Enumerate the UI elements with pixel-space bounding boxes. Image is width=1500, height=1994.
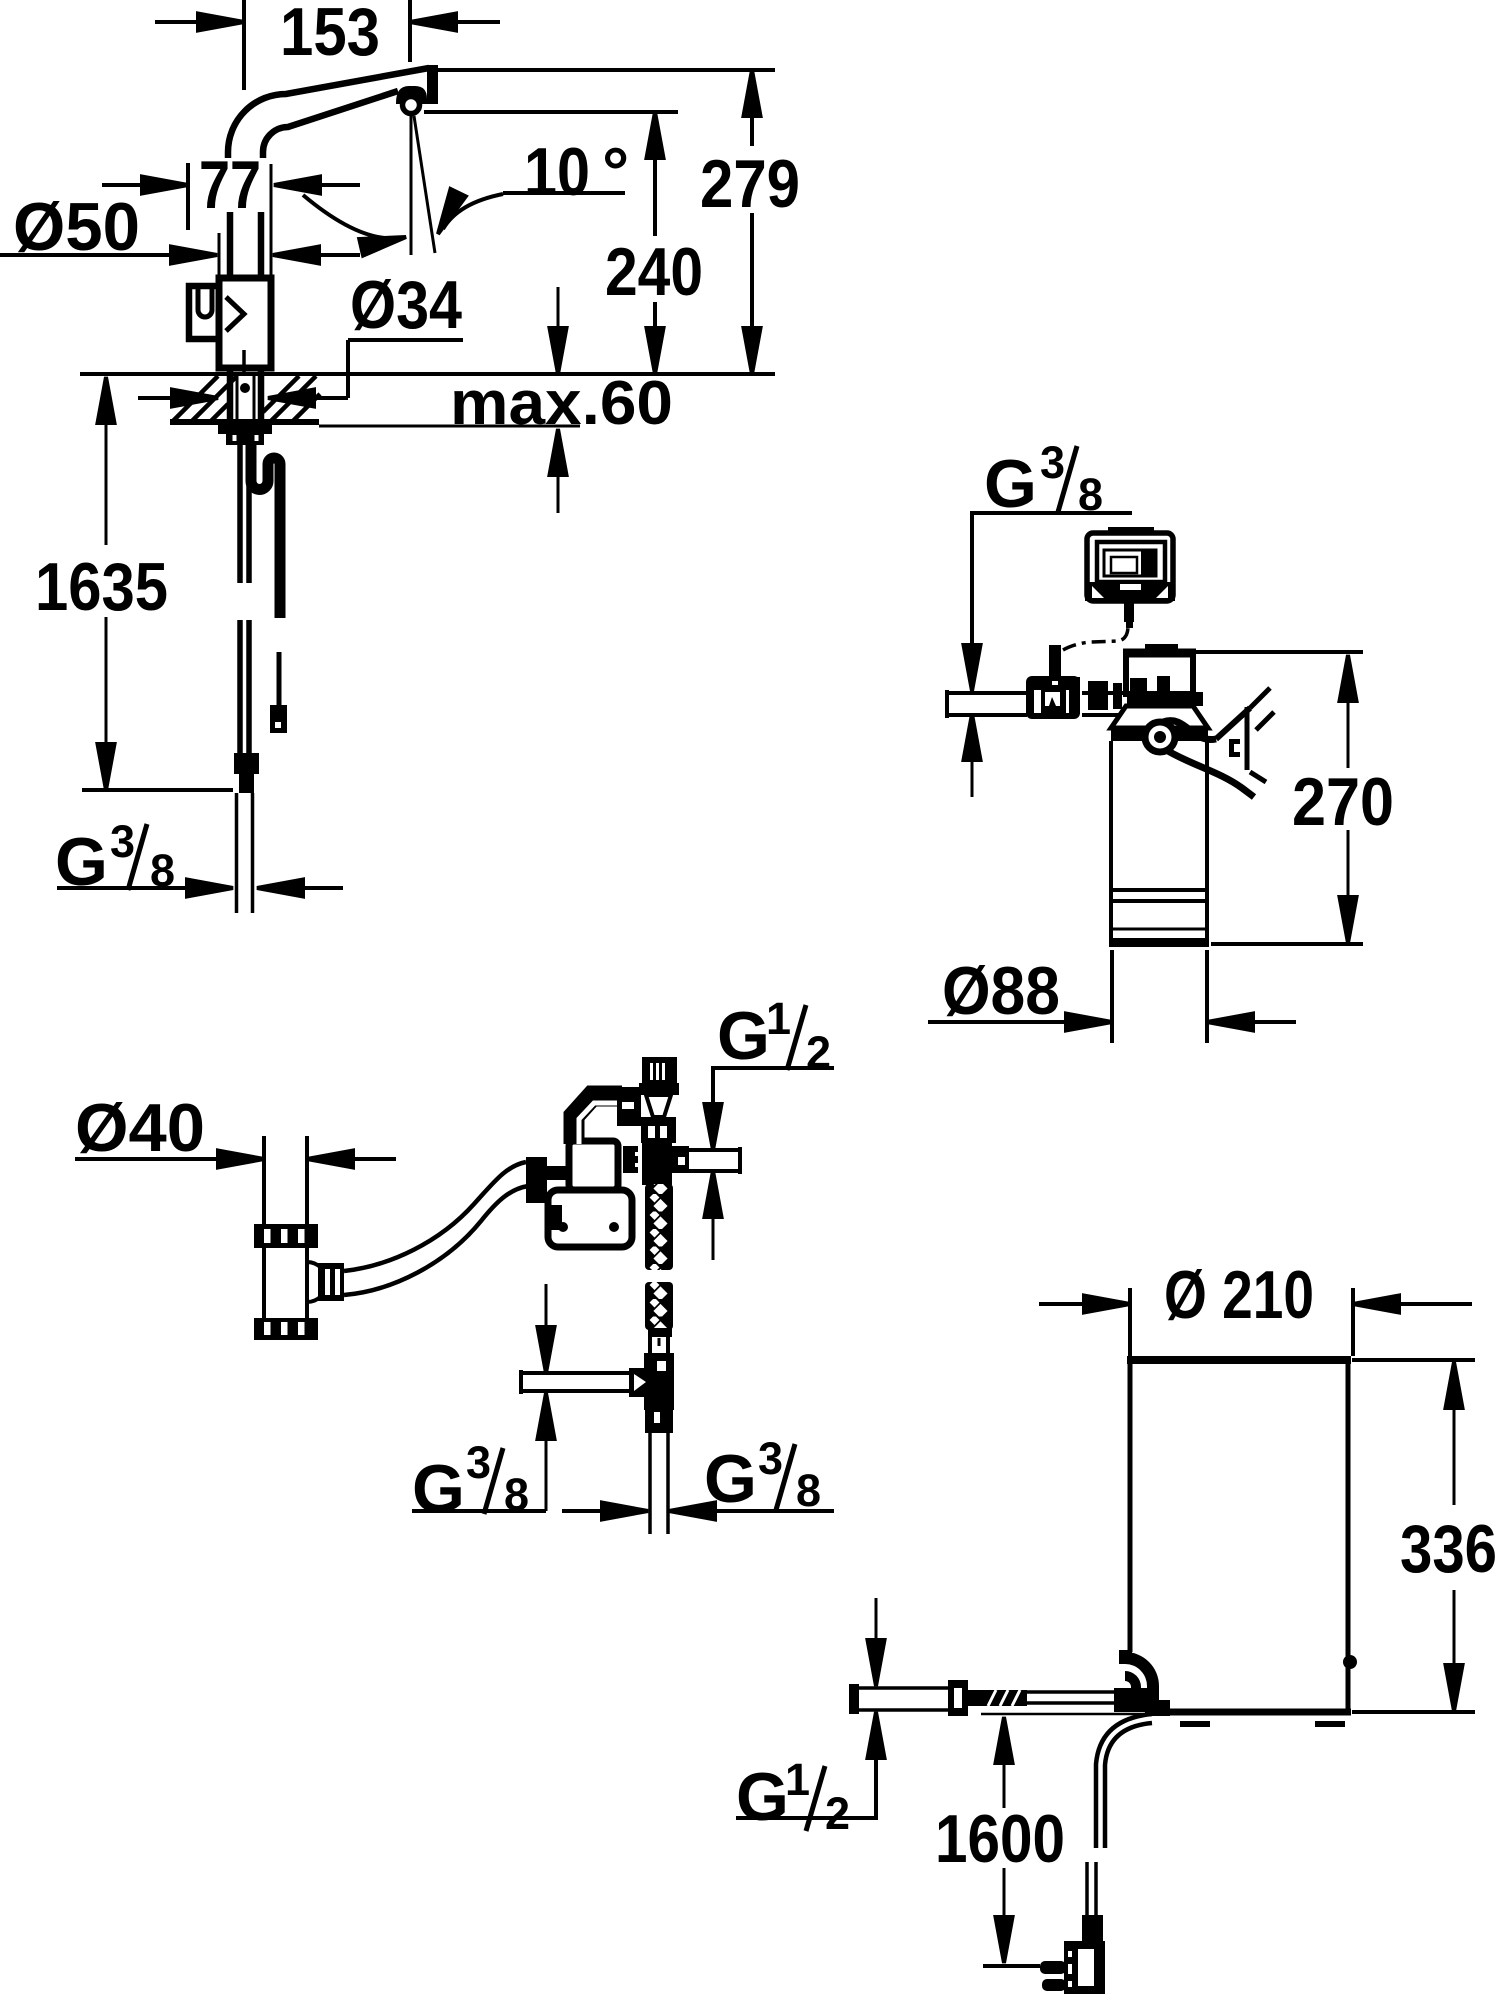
label G 3/8 bottom right with underline bbox=[713, 1509, 834, 1513]
dim 279 vertical with arrows bbox=[744, 70, 761, 116]
shank inner thread lines bbox=[236, 374, 239, 422]
leader line of 10 deg bbox=[503, 191, 625, 195]
D88 arrows bbox=[928, 1020, 1068, 1024]
faucet neck right wall bbox=[258, 212, 265, 280]
pump box bbox=[569, 1141, 618, 1190]
pipe fitting block bbox=[948, 1680, 968, 1716]
elbow inner white channel bbox=[579, 1103, 620, 1144]
hose tail pipe bbox=[235, 793, 239, 913]
filter head top tab bbox=[1145, 644, 1178, 652]
svg-text:1635: 1635 bbox=[35, 549, 168, 625]
wrench jaw clip bbox=[1229, 739, 1240, 757]
elbow-valve connector block bbox=[617, 1087, 641, 1126]
wrench ring bbox=[1145, 722, 1175, 752]
svg-text:153: 153 bbox=[280, 0, 380, 70]
dim 153 extension line right bbox=[408, 0, 412, 62]
cartridge walls bbox=[1109, 741, 1113, 941]
braided hose lower bbox=[645, 1282, 673, 1330]
pipe thin section bbox=[1027, 1690, 1127, 1694]
filter head flare bbox=[1111, 706, 1208, 728]
dim 1600 bbox=[996, 1717, 1013, 1763]
D34 leader underline bbox=[348, 338, 463, 342]
faucet handle bbox=[189, 286, 219, 339]
plate screw holes bbox=[558, 1222, 568, 1232]
elbow pipe black bbox=[574, 1096, 622, 1144]
angle arc left with arrow bbox=[303, 195, 400, 238]
lower nut bbox=[645, 1410, 673, 1433]
D210 extension lines bbox=[1128, 1288, 1132, 1356]
hatching right bbox=[263, 376, 320, 422]
pipe thread section bbox=[981, 1690, 1027, 1706]
tee block bbox=[642, 1140, 672, 1185]
dim 270 vertical bbox=[1340, 655, 1357, 701]
G3/8 bracket line bbox=[972, 513, 1132, 651]
S hose upper line bbox=[344, 1162, 526, 1271]
dim 336 vertical bbox=[1446, 1362, 1463, 1408]
hose-tee junction block bbox=[644, 1353, 674, 1410]
union nuts between pipe and head bbox=[1069, 677, 1080, 714]
1600 reference line under pipe bbox=[981, 1713, 1158, 1716]
svg-text:G: G bbox=[704, 1441, 757, 1517]
tee valve body bbox=[1026, 676, 1080, 719]
display right cell black bbox=[1141, 550, 1156, 576]
tee left branch bbox=[623, 1146, 638, 1173]
safety valve handle bbox=[642, 1057, 677, 1083]
G1/2 underline bracket bbox=[736, 1756, 876, 1818]
lower pipe to tee bbox=[521, 1371, 631, 1375]
dim 240 vertical with arrows bbox=[647, 112, 664, 158]
svg-text:G: G bbox=[736, 1759, 789, 1835]
S hose lower line bbox=[344, 1186, 528, 1295]
G1/2 arrow up bbox=[705, 1171, 722, 1217]
faucet base right wall (also 77 ext) bbox=[270, 164, 273, 280]
svg-text:G: G bbox=[984, 446, 1037, 522]
supply hose pair upper bbox=[237, 445, 243, 583]
D210 arrows bbox=[1039, 1302, 1086, 1306]
boiler right wall bbox=[1346, 1360, 1351, 1712]
power cable lower piece bbox=[1085, 1862, 1089, 1916]
svg-text:8: 8 bbox=[796, 1465, 821, 1516]
standpipe side outlet bbox=[307, 1262, 327, 1302]
svg-text:240: 240 bbox=[605, 234, 703, 310]
faucet spout bottom edge bbox=[263, 91, 398, 158]
G1/2 arrows bbox=[875, 1598, 878, 1642]
svg-text:1600: 1600 bbox=[935, 1801, 1065, 1877]
underline bottom-left G3/8 bbox=[412, 1509, 546, 1513]
boiler left wall bbox=[1128, 1360, 1133, 1652]
pump mounting plate bbox=[548, 1190, 632, 1247]
safety valve body bbox=[639, 1083, 679, 1095]
svg-text:336: 336 bbox=[1400, 1511, 1497, 1587]
braided hose upper bbox=[645, 1184, 673, 1270]
display cable stub bbox=[1124, 601, 1134, 622]
control cable J-loop bbox=[251, 445, 280, 618]
boiler bottom edge bbox=[1158, 1709, 1351, 1716]
svg-text:3: 3 bbox=[466, 1437, 491, 1488]
dim 279 reference top line bbox=[436, 68, 775, 72]
dim 77 arrows bbox=[102, 183, 145, 187]
faucet neck left wall bbox=[227, 212, 234, 280]
max60 arrow down bbox=[557, 287, 560, 330]
boiler feet bbox=[1180, 1721, 1210, 1727]
mounting nut band bbox=[218, 424, 272, 434]
supply pipe left section bbox=[849, 1684, 859, 1714]
handle triangle symbol bbox=[226, 297, 244, 331]
faucet aerator bbox=[396, 86, 427, 104]
tee cable stub bbox=[1049, 645, 1061, 677]
wrench arm bbox=[1163, 721, 1216, 740]
1600 bottom reference line bbox=[983, 1964, 1040, 1968]
boiler right wall dot bbox=[1343, 1655, 1357, 1669]
cartridge bottom bbox=[1109, 938, 1209, 947]
svg-text:2: 2 bbox=[825, 1788, 850, 1839]
spray axis vertical line bbox=[410, 113, 413, 255]
display inner rect bbox=[1104, 550, 1156, 576]
1635 bottom reference line bbox=[82, 788, 233, 792]
power cable curve bbox=[1096, 1714, 1152, 1848]
filter head lower band bbox=[1127, 692, 1203, 706]
svg-text:2: 2 bbox=[806, 1027, 831, 1078]
dim D50 arrows bbox=[0, 253, 174, 257]
dim 270 top reference bbox=[1196, 650, 1363, 654]
hatching left bbox=[172, 376, 237, 422]
svg-text:77: 77 bbox=[199, 147, 261, 223]
valve coupling nut bbox=[641, 1117, 676, 1143]
standpipe body bbox=[262, 1248, 266, 1318]
dim 336 top reference bbox=[1352, 1358, 1475, 1362]
faucet spout top edge bbox=[228, 68, 429, 158]
handle inner cup bbox=[198, 287, 212, 317]
svg-text:max.60: max.60 bbox=[450, 369, 673, 438]
supply hose pair lower bbox=[237, 620, 243, 753]
faucet shank walls bbox=[227, 366, 234, 424]
dim 240 reference line (spout outlet) bbox=[424, 110, 678, 114]
svg-text:°: ° bbox=[602, 134, 629, 210]
svg-text:G: G bbox=[412, 1451, 465, 1527]
display left cell inner bbox=[1111, 557, 1137, 573]
D34 leader drop bbox=[346, 340, 350, 398]
faucet base left wall bbox=[218, 233, 221, 280]
dim 77 extension left bbox=[186, 163, 190, 230]
D88 extension lines bbox=[1110, 950, 1114, 1043]
countertop line bbox=[80, 372, 775, 376]
hose end fitting bbox=[234, 753, 259, 774]
dim 1635 bbox=[98, 377, 115, 423]
small dim arrows at lower pipe bbox=[545, 1284, 548, 1330]
bottom tube bbox=[648, 1433, 652, 1534]
junction left fitting with triangle bbox=[629, 1368, 648, 1397]
svg-text:279: 279 bbox=[700, 146, 800, 222]
display screen frame bbox=[1097, 542, 1165, 582]
D34 arrows bbox=[138, 396, 175, 400]
svg-text:1: 1 bbox=[766, 993, 791, 1044]
control cable lower piece bbox=[277, 652, 282, 707]
boiler inlet elbow bbox=[1119, 1650, 1132, 1664]
svg-text:3: 3 bbox=[1040, 437, 1065, 488]
standpipe bottom nut bbox=[254, 1318, 318, 1340]
display top bar bbox=[1108, 527, 1154, 535]
svg-text:3: 3 bbox=[110, 816, 135, 867]
cartridge ring bands bbox=[1111, 888, 1207, 892]
angle arc right with arrow bbox=[443, 194, 503, 229]
max60 reference line bbox=[319, 425, 580, 428]
valve funnel bbox=[646, 1095, 671, 1117]
dim 153 extension line left bbox=[242, 0, 246, 90]
spray axis tilted line (10 deg) bbox=[414, 116, 435, 253]
wrench jaw bbox=[1245, 707, 1250, 770]
plug prongs bbox=[1040, 1961, 1066, 1974]
filter head inner stub bbox=[1157, 676, 1170, 694]
display base band bbox=[1085, 582, 1175, 601]
shank dot bbox=[240, 383, 250, 393]
max60 arrow up bbox=[550, 429, 567, 475]
D40 arrows bbox=[75, 1157, 220, 1161]
hose-pump fitting bbox=[526, 1157, 547, 1203]
G3/8 dim arrows bbox=[57, 886, 190, 890]
inlet pipe bbox=[947, 691, 1027, 695]
svg-text:3: 3 bbox=[758, 1433, 783, 1484]
svg-text:G: G bbox=[717, 998, 770, 1074]
tee right branch bbox=[672, 1146, 689, 1173]
G1/2 pipe stub bbox=[689, 1148, 740, 1152]
display outer case bbox=[1087, 533, 1173, 601]
faucet body block bbox=[219, 278, 271, 368]
power plug body bbox=[1064, 1941, 1105, 1994]
G3/8 arrow down to pipe bbox=[964, 645, 981, 691]
svg-text:Ø88: Ø88 bbox=[942, 953, 1060, 1029]
counter underside line bbox=[170, 419, 319, 425]
svg-text:270: 270 bbox=[1292, 764, 1394, 840]
standpipe top nut bbox=[254, 1224, 318, 1248]
filter head body bbox=[1126, 652, 1193, 694]
svg-text:Ø 210: Ø 210 bbox=[1164, 1257, 1314, 1333]
standpipe upper walls bbox=[262, 1136, 266, 1224]
svg-text:10: 10 bbox=[524, 134, 590, 210]
boiler top edge bbox=[1127, 1356, 1351, 1364]
G1/2 bracket bbox=[713, 1068, 834, 1105]
faucet spout end cap bbox=[427, 65, 438, 104]
dash-dot cable bbox=[1063, 626, 1128, 650]
G3/8 arrow up below pipe bbox=[964, 714, 981, 760]
svg-text:1: 1 bbox=[785, 1754, 810, 1805]
dim 153 arrow left bbox=[155, 20, 200, 24]
dim 270 bottom reference bbox=[1211, 942, 1363, 946]
svg-text:Ø34: Ø34 bbox=[350, 267, 462, 343]
dim 336 bottom reference bbox=[1352, 1710, 1475, 1714]
svg-text:Ø40: Ø40 bbox=[75, 1090, 205, 1166]
bottom tube dim arrows bbox=[562, 1509, 605, 1513]
control cable connector bbox=[270, 705, 287, 733]
plug cable gland bbox=[1082, 1915, 1103, 1943]
dim 153 arrow right bbox=[410, 14, 456, 31]
